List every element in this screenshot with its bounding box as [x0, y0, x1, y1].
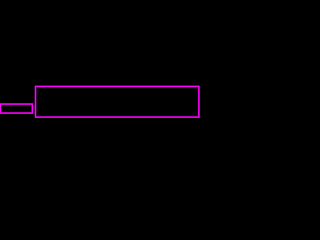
- component body outline: [36, 86, 199, 117]
- pin pad outline: [0, 104, 32, 113]
